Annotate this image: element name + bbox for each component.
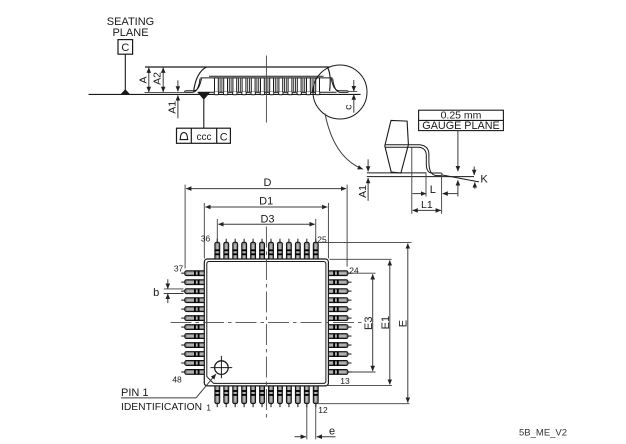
dimension E extension lines [318, 242, 412, 403]
package body outline [204, 259, 328, 386]
dimension A [137, 68, 149, 92]
svg-text:L: L [430, 184, 436, 196]
A/A2 bottom extension line [145, 91, 187, 93]
datum C box [118, 40, 133, 55]
K angle reference line [442, 175, 479, 182]
pin number 24 [349, 266, 359, 276]
svg-text:L1: L1 [421, 199, 433, 211]
svg-text:48: 48 [172, 375, 182, 385]
top view centerline vertical [265, 227, 267, 418]
svg-text:K: K [480, 174, 488, 186]
svg-text:A1: A1 [166, 101, 178, 114]
pin number 1 [206, 402, 211, 412]
dimension A1 (side view) [166, 80, 178, 118]
svg-text:e: e [329, 425, 335, 437]
dimension D3 extension lines [217, 219, 315, 241]
right lead profile [331, 78, 348, 92]
svg-text:E3: E3 [363, 316, 375, 329]
datum C triangle [121, 90, 130, 95]
svg-text:24: 24 [349, 266, 359, 276]
dimension E3 [363, 274, 375, 371]
dimension E1 extension lines [325, 259, 392, 385]
dimension E [398, 244, 410, 403]
svg-text:37: 37 [174, 264, 184, 274]
svg-text:IDENTIFICATION: IDENTIFICATION [121, 402, 202, 413]
L extension lines [412, 148, 442, 214]
gauge detail lead [385, 145, 442, 176]
pin 1 identification text [121, 387, 202, 413]
package body left end curve [194, 67, 207, 92]
side view centerline [265, 56, 267, 123]
pin number 12 [318, 405, 328, 415]
datum C leader wire [124, 54, 126, 90]
pin number 36 [201, 233, 211, 243]
pin number 25 [317, 234, 327, 244]
detail circle [313, 65, 367, 119]
svg-text:b: b [153, 287, 159, 299]
gauge detail package bottom line [367, 172, 427, 174]
dimension L1 [413, 199, 441, 211]
bottom pin row (pins 1..12) [215, 384, 318, 407]
dimension A2 [152, 68, 164, 92]
dimension L [413, 184, 458, 196]
svg-text:A: A [137, 76, 149, 83]
svg-text:c: c [343, 105, 355, 110]
svg-text:E1: E1 [380, 316, 392, 329]
package body right end curve [327, 67, 330, 91]
dimension c arrows [343, 80, 358, 113]
seating plane line [89, 93, 361, 95]
pin number 48 [172, 375, 182, 385]
package body bottom lines [200, 76, 332, 78]
dimension K [474, 167, 488, 189]
dimension A1 (gauge detail) [357, 159, 369, 201]
svg-text:D3: D3 [260, 214, 274, 226]
svg-text:C: C [220, 132, 228, 144]
ccc tolerance box [177, 128, 231, 143]
svg-text:PLANE: PLANE [112, 27, 148, 39]
svg-text:C: C [121, 42, 129, 54]
gauge detail body section [385, 120, 409, 173]
gauge plane callout box [419, 110, 504, 133]
pin 1 identification leader [121, 374, 216, 398]
svg-text:D: D [264, 177, 272, 189]
dimension E1 [380, 260, 392, 384]
gauge detail seating plane line [367, 176, 474, 178]
svg-text:5B_ME_V2: 5B_ME_V2 [519, 428, 567, 439]
package body inner outline with pin1 chamfer [207, 262, 326, 384]
dimension b [153, 279, 168, 303]
dimension D1 [205, 196, 327, 208]
left pin row (pins 37..48) [181, 271, 206, 375]
dimension e [295, 425, 336, 437]
top pin row (pins 36..25) [215, 239, 318, 262]
svg-text:ccc: ccc [197, 132, 212, 143]
svg-text:A1: A1 [357, 185, 369, 198]
dimension D1 extension lines [204, 203, 328, 259]
right pin row (pins 24..13) [326, 271, 351, 375]
svg-text:A2: A2 [152, 72, 164, 85]
side view pin comb [198, 78, 337, 95]
dimension e extension lines [307, 405, 316, 440]
dimension D extension lines [185, 185, 347, 269]
gauge plane indicator line [457, 131, 459, 197]
dimension D [186, 177, 346, 189]
dimension D3 [218, 214, 314, 226]
drawing reference 5B_ME_V2 [519, 428, 567, 439]
svg-text:25: 25 [317, 234, 327, 244]
ccc datum triangle [198, 93, 209, 128]
svg-text:E: E [398, 320, 410, 327]
pin number 13 [340, 376, 350, 386]
svg-text:36: 36 [201, 233, 211, 243]
detail leader curve [325, 114, 363, 170]
left lead profile [185, 78, 202, 92]
package body top [145, 66, 329, 68]
dimension b extension lines [164, 289, 184, 294]
pin 1 identifier circle [211, 356, 233, 378]
seating plane label [107, 16, 154, 39]
pin number 37 [174, 264, 184, 274]
svg-text:12: 12 [318, 405, 328, 415]
svg-text:GAUGE PLANE: GAUGE PLANE [422, 120, 499, 132]
dimension E3 extension lines [351, 273, 376, 372]
svg-text:D1: D1 [259, 196, 273, 208]
svg-text:1: 1 [206, 402, 211, 412]
top view centerline horizontal [171, 321, 363, 323]
svg-text:13: 13 [340, 376, 350, 386]
